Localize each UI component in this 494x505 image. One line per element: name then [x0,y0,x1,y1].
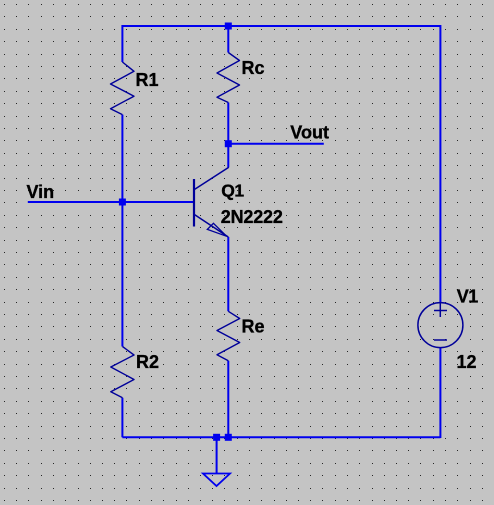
svg-text:12: 12 [457,352,477,372]
svg-text:Vin: Vin [27,182,55,202]
svg-text:Re: Re [242,317,265,337]
svg-text:R2: R2 [136,352,159,372]
svg-text:Q1: Q1 [221,180,244,200]
svg-text:V1: V1 [457,287,479,307]
svg-text:Vout: Vout [290,123,329,143]
svg-text:2N2222: 2N2222 [221,207,283,227]
svg-text:R1: R1 [136,70,159,90]
svg-text:Rc: Rc [242,58,265,78]
